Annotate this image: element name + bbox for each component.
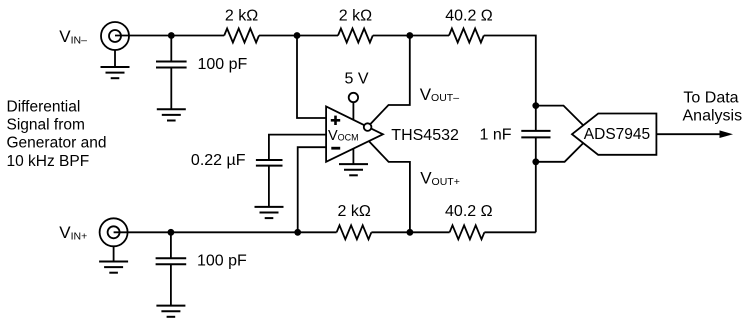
svg-text:Generator and: Generator and [7,135,107,152]
svg-text:100 pF: 100 pF [197,253,247,270]
node junction rail bottom [532,158,539,165]
wire 5V to amp [352,102,354,120]
svg-text:2 kΩ: 2 kΩ [338,203,371,220]
capacitor C3 0.22uF plates [256,159,283,161]
node junction rail top [532,102,539,109]
capacitor C2 plates [156,257,187,259]
wire BNC J2 stub to ground [113,246,115,261]
svg-text:THS4532: THS4532 [391,127,459,144]
connector J2 (VIN+ BNC) [100,218,128,246]
wire BNC J1 stub to ground [114,50,116,67]
wire amp -input to node A2 [298,147,326,232]
svg-text:ADS7945: ADS7945 [584,126,650,143]
wire node A to amp +input [297,36,326,119]
op-amp label THS4532 [391,127,459,144]
op-amp inverting input minus sign [331,147,340,150]
connector J1 (VIN- BNC) [101,22,129,50]
resistor R5 40.2 [450,225,485,239]
svg-text:2 kΩ: 2 kΩ [225,8,258,25]
node B2 junction [407,229,414,236]
wire bottom row: BNC to R4 [114,231,337,233]
capacitor C1 plates [156,61,187,63]
wire R5 to right vertical rail [484,231,535,233]
wire top row: BNC to R1 [115,35,224,37]
svg-text:1 nF: 1 nF [479,126,511,143]
power 5V terminal circle [349,93,358,102]
svg-text:To Data: To Data [683,90,738,107]
capacitor C1 100pF stub [170,36,172,62]
svg-text:5 V: 5 V [344,71,368,88]
wire rail to ADC bottom input [536,143,583,162]
ground below C1 [157,108,186,110]
node A2 junction [294,229,301,236]
value label C3 [191,152,246,169]
resistor R1 2k [224,29,259,43]
capacitor C2 100pF stub [170,232,172,257]
op-amp U1 THS4532 triangle [326,107,383,162]
svg-text:100 pF: 100 pF [198,56,248,73]
output bubble (inverting output) [364,123,372,131]
wire C2 to ground [170,264,172,305]
svg-text:40.2 Ω: 40.2 Ω [445,8,493,25]
ground below J2 [99,261,128,263]
ground below J1 [101,66,130,68]
svg-text:Signal from: Signal from [7,117,85,134]
node VIN- label [59,27,87,46]
wire C3 to ground [268,166,270,207]
ADC U2 ADS7945 pentagon [572,114,656,155]
value label C1 [198,56,248,73]
ground below C3 [255,206,284,208]
label source description [7,98,107,170]
wire C1 to ground [170,68,172,110]
node A junction [294,32,301,39]
svg-text:Analysis: Analysis [683,108,743,125]
value label C4 [479,126,511,143]
svg-text:2 kΩ: 2 kΩ [339,8,372,25]
wire vertical rail lower half [535,138,537,232]
wire out+ stub to node B2 [369,141,410,232]
wire rail to ADC top input [536,106,583,126]
value label C2 [197,253,247,270]
label To Data Analysis [683,90,743,125]
node VIN+ label [59,223,87,242]
svg-text:40.2 Ω: 40.2 Ω [445,203,493,220]
svg-text:0.22 µF: 0.22 µF [191,152,246,169]
wire node B down to out- stub [370,36,410,125]
wire ADC output [656,133,720,135]
node VOUT- label [420,85,460,104]
resistor R4 2k feedback [337,225,372,239]
resistor R2 2k feedback [338,29,373,43]
svg-text:10 kHz BPF: 10 kHz BPF [7,153,90,170]
ADC label [584,126,650,143]
node VOUT+ label [420,169,460,188]
svg-text:Differential: Differential [7,98,81,115]
arrowhead to data analysis [720,130,734,138]
wire amp to ground [352,148,354,164]
op-amp non-inverting input plus sign [331,119,340,122]
node junction top-1 [168,32,175,39]
capacitor C4 1nF plates [521,130,550,132]
wire R3 to right vertical rail [484,36,536,131]
node junction bottom-1 [168,229,175,236]
ground below amp [339,163,368,165]
ground below C2 [156,305,185,307]
op-amp VOCM pin label [328,128,359,144]
wire R4 to R5 [371,231,449,233]
wire R2 to R3 [373,35,449,37]
wire VOCM to C3 [269,135,326,160]
node B junction [406,32,413,39]
wire R1 to R2 [259,35,338,37]
resistor R3 40.2 [449,29,484,43]
